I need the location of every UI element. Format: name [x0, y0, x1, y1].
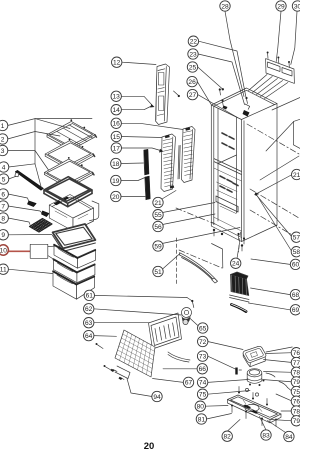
drawer (item 10a): [54, 244, 78, 268]
dash axis vertical: [176, 238, 178, 285]
svg-text:17: 17: [113, 145, 121, 152]
svg-text:81: 81: [198, 416, 206, 423]
wire: [266, 347, 292, 352]
svg-text:67: 67: [185, 380, 193, 387]
wire: [121, 96, 151, 104]
callout 67: [183, 377, 193, 387]
bracket (item 6): [28, 201, 37, 207]
callout 64: [84, 330, 94, 340]
svg-text:22: 22: [190, 39, 198, 46]
wire: [8, 234, 52, 236]
dash axis: [250, 189, 299, 218]
compressor (item 74): [247, 373, 262, 383]
wire condenser (item 64): [115, 330, 155, 377]
callout 21: [292, 169, 302, 179]
wire: [266, 122, 294, 151]
svg-text:1: 1: [1, 123, 5, 130]
wire: [163, 203, 216, 213]
callout 15: [111, 131, 121, 141]
wire: [9, 176, 17, 179]
wire: [251, 288, 291, 295]
wire: [122, 62, 156, 64]
fin evaporator (dark): [231, 275, 249, 296]
wire: [162, 191, 176, 200]
svg-text:61: 61: [86, 293, 94, 300]
callout 19: [111, 175, 121, 185]
shelf S1 (wire shelf, items 1-2): [47, 121, 95, 148]
svg-text:20: 20: [144, 441, 155, 450]
callout 66: [197, 364, 207, 374]
callout 27: [187, 89, 197, 99]
svg-text:21: 21: [154, 200, 162, 207]
wire: [121, 196, 145, 198]
callout 94: [152, 391, 162, 401]
wire: [257, 195, 292, 236]
svg-text:79: 79: [293, 379, 300, 386]
wire: [198, 67, 222, 89]
cabinet feet: [213, 229, 215, 231]
svg-text:7: 7: [1, 203, 5, 210]
callout 58: [291, 247, 301, 257]
base plate bolts: [231, 406, 233, 413]
bracket alignment lines: [249, 75, 268, 91]
drain hose: [168, 352, 190, 360]
wire: [94, 309, 182, 315]
callout 65: [198, 323, 208, 333]
wire: [199, 41, 246, 97]
callout 14: [111, 105, 121, 115]
callout 11: [0, 264, 8, 274]
bottom rail (item 24/51): [180, 253, 218, 282]
condenser screws: [96, 343, 98, 345]
svg-text:64: 64: [85, 333, 93, 340]
pump motor (item 62/65): [182, 308, 192, 318]
shelf S3 (glass shelf): [45, 159, 93, 186]
svg-text:58: 58: [293, 249, 300, 256]
callout 73: [197, 351, 207, 361]
cabinet interior rails: [222, 133, 227, 136]
bent leader: [293, 119, 300, 148]
callout 51: [153, 266, 163, 276]
callout 8: [0, 213, 8, 223]
svg-text:60: 60: [292, 262, 300, 269]
callout 4: [0, 162, 9, 172]
wire: [237, 243, 240, 259]
svg-text:28: 28: [221, 3, 229, 10]
wire: [249, 303, 291, 310]
wire: [94, 322, 150, 324]
svg-text:74: 74: [199, 380, 207, 387]
wire: [276, 11, 281, 61]
callout 79: [291, 377, 301, 387]
callout 7: [0, 201, 8, 211]
svg-text:78: 78: [293, 370, 300, 377]
svg-text:55: 55: [154, 212, 162, 219]
wire: [225, 11, 244, 96]
svg-text:57: 57: [293, 235, 300, 242]
chiller case (items 6-7): [49, 205, 73, 231]
callout 24: [231, 258, 241, 268]
svg-text:94: 94: [153, 394, 161, 401]
grommets: [245, 388, 248, 391]
wire: [208, 391, 250, 395]
wire: [198, 95, 238, 118]
svg-text:73: 73: [199, 353, 207, 360]
wire: [122, 148, 161, 151]
svg-text:51: 51: [154, 269, 162, 276]
svg-text:16: 16: [113, 121, 121, 128]
drawer (item 11): [53, 271, 77, 300]
callout 75: [197, 389, 207, 399]
wire: [272, 98, 300, 111]
callout 60: [290, 259, 300, 269]
heater rod: [178, 146, 179, 180]
svg-text:10: 10: [0, 247, 7, 254]
callout 76: [291, 396, 301, 406]
svg-text:83: 83: [262, 432, 270, 439]
svg-text:29: 29: [277, 3, 285, 10]
svg-text:82: 82: [224, 434, 232, 441]
wire: [163, 214, 216, 225]
callout 3: [0, 145, 8, 155]
wire: [8, 132, 61, 140]
callout 2: [0, 134, 8, 144]
svg-text:19: 19: [112, 178, 120, 185]
callout 75: [291, 386, 301, 396]
machine room cover edge: [212, 244, 223, 269]
hatched cover (item 8): [30, 219, 53, 233]
side screw: [254, 192, 258, 196]
wire: [257, 175, 292, 194]
callout 59: [153, 241, 163, 251]
svg-text:72: 72: [199, 339, 207, 346]
wire: [197, 82, 211, 105]
wire: [162, 254, 180, 270]
callout 26: [187, 76, 197, 86]
svg-text:59: 59: [154, 243, 162, 250]
rear evap panel (item 16): [182, 127, 196, 183]
callout 9: [0, 230, 8, 240]
callout 20: [111, 191, 121, 201]
callout 22: [188, 36, 198, 46]
callout 81: [196, 414, 206, 424]
dash axis: [247, 124, 299, 154]
dash axis: [250, 210, 299, 239]
wire red leader: [9, 250, 30, 252]
callout 18: [111, 158, 121, 168]
svg-text:75: 75: [293, 389, 300, 396]
callout 55: [153, 210, 163, 220]
callout 84: [284, 431, 294, 441]
svg-text:11: 11: [0, 267, 7, 274]
svg-text:20: 20: [112, 194, 120, 201]
svg-text:21: 21: [293, 172, 300, 179]
callout 1: [0, 120, 8, 130]
wire: [153, 379, 184, 383]
crisper cover (item 9): [53, 224, 96, 248]
wire: [48, 245, 55, 247]
wire: [260, 156, 299, 180]
callout 23: [188, 49, 198, 59]
wire: [121, 162, 144, 165]
wire: [34, 119, 36, 164]
svg-text:80: 80: [197, 404, 205, 411]
wire: [121, 107, 150, 110]
arrow 17: [159, 149, 164, 153]
svg-text:27: 27: [189, 92, 197, 99]
callout 5: [0, 174, 9, 184]
callout 21: [153, 197, 163, 207]
callout 62: [84, 304, 94, 314]
svg-text:65: 65: [199, 325, 207, 332]
callout 6: [0, 189, 8, 199]
callout 68: [290, 289, 300, 299]
callout 29: [276, 1, 286, 11]
wire fan right: [266, 352, 292, 355]
svg-text:3: 3: [1, 148, 5, 155]
case corner frame: [90, 201, 99, 221]
callout 78: [291, 367, 301, 377]
evap cover panel (item 15): [161, 134, 176, 192]
panel clips: [165, 135, 170, 139]
wire: [227, 420, 240, 432]
wire: [122, 137, 163, 138]
wire: [188, 317, 198, 326]
callout 63: [84, 318, 94, 328]
svg-text:78: 78: [293, 408, 300, 415]
callout 72: [198, 336, 208, 346]
bracket (item 7): [42, 211, 49, 217]
wire: [291, 11, 297, 64]
callout 28: [220, 1, 230, 11]
fin pack base: [230, 295, 250, 300]
wire: [94, 335, 117, 338]
svg-text:5: 5: [2, 176, 6, 183]
wire: [8, 194, 29, 202]
svg-text:66: 66: [199, 366, 207, 373]
callout 56: [153, 221, 163, 231]
chiller cover (thick frame): [44, 177, 92, 207]
svg-text:24: 24: [232, 261, 240, 268]
svg-text:2: 2: [1, 136, 5, 143]
wire: [257, 196, 291, 251]
wire: [8, 119, 93, 126]
wire: [208, 342, 243, 350]
svg-text:12: 12: [113, 60, 121, 67]
dash axis: [179, 250, 222, 268]
wire: [205, 405, 228, 408]
callout 10: [0, 245, 8, 255]
hinge screws (items 22/23): [219, 88, 221, 90]
callout 25: [187, 62, 197, 72]
svg-text:15: 15: [113, 134, 121, 141]
wire: [121, 178, 145, 181]
screw near 12: [174, 91, 179, 96]
bottom rail bolts: [237, 233, 239, 235]
wire: [127, 379, 152, 397]
svg-text:68: 68: [292, 292, 300, 299]
shelf S2 (glass shelf, item 3): [45, 141, 93, 168]
wire: [198, 54, 244, 105]
wire: [208, 380, 248, 383]
drawer (item 10b): [53, 259, 77, 283]
svg-text:69: 69: [292, 307, 300, 314]
arrow 13/14: [150, 104, 155, 108]
svg-text:77: 77: [293, 360, 300, 367]
wire: [251, 259, 290, 264]
top bracket (items 29/30): [266, 59, 295, 84]
svg-text:75: 75: [199, 392, 207, 399]
screw item25: [222, 88, 224, 90]
wire: [35, 119, 70, 129]
svg-text:84: 84: [285, 434, 293, 441]
callout 13: [111, 91, 121, 101]
condenser foot bracket: [115, 366, 130, 379]
callout 79: [291, 416, 301, 426]
svg-text:9: 9: [1, 232, 5, 239]
wire: [260, 417, 267, 431]
svg-text:25: 25: [189, 64, 197, 71]
callout 74: [197, 377, 207, 387]
cabinet (item 26/27 body): [211, 88, 277, 120]
wire: [268, 421, 286, 433]
wire: [8, 206, 42, 213]
wire: [8, 218, 30, 225]
callout 12: [112, 57, 122, 67]
wire: [8, 151, 49, 171]
callout 69: [290, 305, 300, 315]
callout 83: [261, 430, 271, 440]
svg-text:18: 18: [112, 161, 120, 168]
fan duct panel (item 12): [156, 64, 170, 125]
wire: [9, 164, 42, 189]
callout 30: [292, 1, 302, 11]
red bracket box: [30, 244, 48, 258]
black strip lower (item 19/20): [145, 176, 150, 200]
wire: [8, 269, 53, 273]
svg-text:6: 6: [1, 191, 5, 198]
callout 78: [291, 406, 301, 416]
mount plate (items 61-63): [149, 313, 182, 349]
wire: [163, 368, 197, 370]
bolt (item 73): [235, 368, 237, 375]
callout 77: [291, 357, 301, 367]
callout 61: [84, 290, 94, 300]
bar end cap: [15, 173, 19, 177]
trim bar (item 4-5): [15, 170, 43, 190]
callout 57: [291, 232, 301, 242]
dash axis: [176, 208, 215, 224]
base plate (items 80-84): [228, 395, 282, 420]
wire: [208, 356, 236, 369]
svg-text:62: 62: [85, 306, 93, 313]
freezer floor: [216, 196, 238, 212]
callout 17: [111, 143, 121, 153]
hinge (item 25 target): [245, 97, 247, 99]
callout 76: [291, 348, 301, 358]
svg-text:14: 14: [113, 107, 121, 114]
svg-text:30: 30: [294, 3, 300, 10]
wire: [94, 295, 187, 297]
callout 16: [111, 118, 121, 128]
svg-text:26: 26: [188, 79, 196, 86]
svg-text:63: 63: [85, 320, 93, 327]
svg-text:56: 56: [154, 224, 162, 231]
wire: [206, 414, 231, 420]
discharge tube: [279, 382, 288, 388]
wire: [239, 232, 241, 252]
callout 82: [222, 431, 232, 441]
svg-text:76: 76: [293, 399, 300, 406]
svg-text:79: 79: [293, 418, 300, 425]
svg-text:8: 8: [1, 215, 5, 222]
svg-text:13: 13: [113, 94, 121, 101]
black strip upper (item 18): [144, 149, 149, 175]
wire: [122, 123, 184, 129]
drain pan (item 72): [243, 346, 266, 362]
callout 80: [195, 401, 205, 411]
wire: [162, 228, 240, 244]
svg-text:23: 23: [189, 51, 197, 58]
svg-text:76: 76: [293, 350, 300, 357]
svg-text:4: 4: [2, 164, 6, 171]
